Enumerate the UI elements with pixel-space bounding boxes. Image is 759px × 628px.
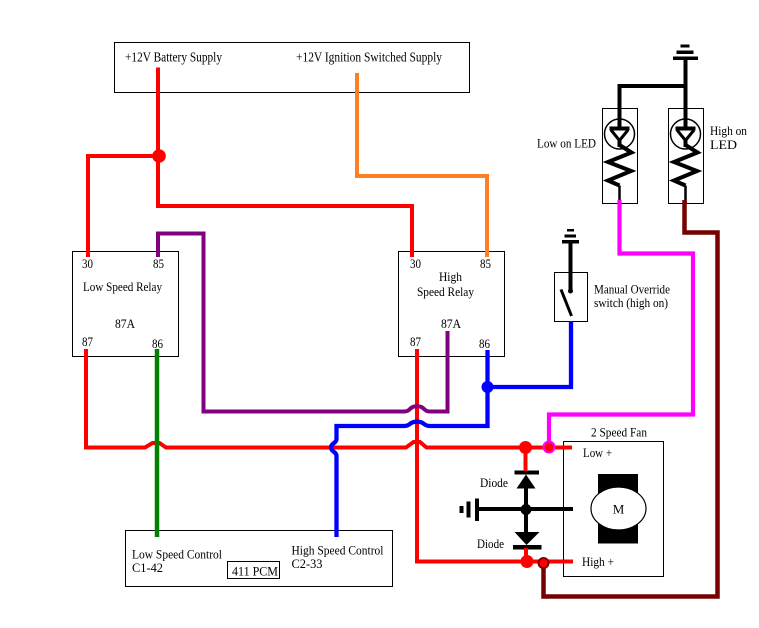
motor M1 body	[591, 474, 646, 544]
node junction low + bus	[519, 441, 532, 454]
svg-text:Diode: Diode	[480, 475, 508, 490]
svg-text:High on: High on	[710, 123, 747, 138]
high speed relay box	[399, 252, 505, 357]
wire stub diode D4 to high + (red)	[524, 548, 528, 562]
LED D2 with resistor R2 (high on)	[671, 108, 701, 203]
svg-text:87A: 87A	[115, 316, 136, 331]
wire ignition feed to high relay 85 (orange)	[357, 73, 487, 257]
svg-text:87A: 87A	[441, 316, 462, 331]
svg-text:C1-42: C1-42	[132, 560, 163, 575]
wire high relay 87 to fan high + (red)	[417, 349, 573, 562]
svg-text:87: 87	[410, 334, 421, 349]
supply box	[115, 43, 470, 93]
svg-text:Speed Relay: Speed Relay	[417, 284, 474, 299]
svg-text:High: High	[439, 269, 462, 284]
wire stub to diode D3 (red)	[524, 448, 528, 472]
switch S1 lever	[561, 290, 572, 317]
wire low relay 86 to PCM low speed control (green)	[155, 349, 160, 537]
ground G2 (above switch)	[562, 229, 579, 244]
wire LED D1 to fan low + (magenta)	[549, 200, 693, 445]
PCM box	[126, 531, 393, 587]
wire node to switch (blue)	[488, 321, 572, 387]
wire node to PCM high speed control (blue)	[331, 387, 488, 537]
node junction high + bus	[521, 555, 534, 568]
svg-text:+12V Ignition Switched Supply: +12V Ignition Switched Supply	[296, 51, 442, 66]
wire low relay 87 to fan low + (red bus)	[86, 349, 572, 448]
ground G1 (top right)	[673, 45, 698, 61]
LED module box left	[603, 109, 638, 204]
svg-text:2 Speed Fan: 2 Speed Fan	[591, 425, 647, 440]
manual override switch box	[555, 273, 588, 322]
svg-text:30: 30	[82, 256, 93, 271]
LED module box right	[669, 109, 704, 204]
svg-text:switch (high on): switch (high on)	[594, 295, 668, 310]
wire LED D2 to fan high + (maroon)	[544, 200, 718, 597]
svg-text:Low +: Low +	[583, 445, 612, 460]
LED D1 with resistor R1 (low on)	[605, 108, 635, 203]
svg-text:86: 86	[152, 336, 163, 351]
svg-text:85: 85	[480, 256, 491, 271]
diode D4 (bottom)	[513, 513, 542, 550]
svg-text:30: 30	[410, 256, 421, 271]
node junction magenta to low +	[544, 442, 555, 453]
svg-text:LED: LED	[710, 137, 737, 152]
svg-text:High +: High +	[582, 554, 614, 569]
svg-text:+12V Battery Supply: +12V Battery Supply	[125, 51, 222, 66]
svg-text:411 PCM: 411 PCM	[232, 564, 278, 579]
2 speed fan box	[564, 442, 664, 577]
svg-text:86: 86	[479, 336, 490, 351]
wire low relay 85 to high relay 87A (purple)	[158, 234, 448, 412]
wire high relay 86 to node (blue)	[485, 350, 489, 387]
svg-text:Low on LED: Low on LED	[537, 136, 596, 151]
wire ground to LED supplies	[620, 60, 686, 108]
svg-text:85: 85	[153, 256, 164, 271]
svg-text:M: M	[613, 502, 625, 517]
wire battery +12V feed (red)	[158, 68, 412, 258]
node junction maroon to high +	[539, 558, 549, 568]
wire diode common to motor	[477, 507, 573, 511]
wire branch to low relay 30 (red)	[88, 156, 158, 257]
node junction blue	[482, 381, 494, 393]
svg-text:Low Speed Relay: Low Speed Relay	[83, 279, 162, 294]
411 PCM label box	[228, 562, 280, 579]
diode D3 (top)	[515, 471, 540, 506]
node junction battery feed	[152, 149, 166, 163]
svg-text:C2-33: C2-33	[292, 556, 323, 571]
ground G3 (diode common, left pointing)	[460, 499, 480, 522]
svg-text:87: 87	[82, 334, 93, 349]
svg-text:Diode: Diode	[477, 536, 504, 551]
node junction diode common	[521, 504, 532, 515]
low speed relay box	[73, 252, 179, 357]
wire ground to switch	[569, 243, 573, 291]
